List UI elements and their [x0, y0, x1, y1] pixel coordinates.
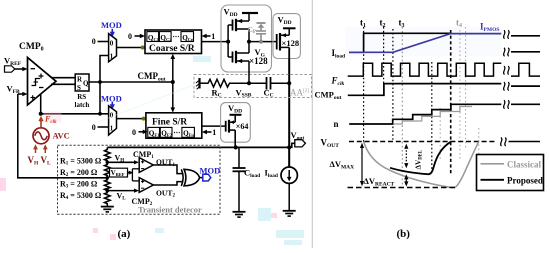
op-amp CMP1 [133, 150, 154, 173]
waveform CMP_out [348, 84, 502, 96]
ground (resistor string) [101, 207, 114, 212]
svg-text:0: 0 [110, 112, 114, 120]
timeline grey dotted lines [440, 27, 479, 188]
wire comparator clock input to AVC node [39, 94, 43, 116]
waveform I_load step (black) [349, 33, 451, 52]
svg-text:×128: ×128 [282, 38, 300, 48]
svg-text:(a): (a) [118, 228, 131, 240]
label V_OUT [321, 138, 340, 149]
label CMP_out [315, 90, 342, 101]
transistor MP power PMOS x128 [277, 33, 290, 59]
label MOD (top mux select) [101, 20, 122, 37]
V_OUT proposed curve (black) [390, 142, 451, 174]
node V_H tap [106, 154, 140, 165]
register Fine S/R [146, 113, 202, 138]
svg-text:1: 1 [212, 128, 216, 137]
svg-text:Proposed: Proposed [507, 175, 543, 185]
timeline step3 dotted [431, 62, 433, 173]
label t4 (grey) [456, 18, 462, 29]
label t3 [399, 18, 405, 29]
svg-text:RS: RS [77, 93, 86, 101]
svg-text:⋯: ⋯ [173, 33, 180, 41]
waveform I_PMOS (blue) [349, 34, 501, 53]
svg-text:R3 = 200 Ω: R3 = 200 Ω [60, 180, 98, 190]
op-amp CMP2 [132, 178, 154, 207]
svg-text:Coarse S/R: Coarse S/R [149, 44, 195, 54]
timeline t3 dotted grey [401, 27, 403, 188]
timeline recovery heavy dashed [450, 30, 452, 175]
port MOD output [200, 165, 221, 181]
node V_L tap [106, 189, 140, 202]
op-amp CMP0 [28, 58, 57, 106]
wire Fine gate line to x64 gate [202, 125, 226, 127]
label R4 value [60, 191, 102, 201]
label AA[2] (grey) [290, 88, 309, 98]
svg-text:CMP0: CMP0 [19, 42, 44, 53]
label V_DD (driver) [224, 7, 238, 19]
label x64 [236, 122, 249, 131]
node 1 input of Fine S/R [202, 128, 217, 137]
power PMOS group box [273, 14, 300, 59]
timeline t1 dotted [363, 27, 365, 142]
label (b) [397, 228, 411, 240]
AVC oscillator [33, 128, 70, 144]
svg-text:Q: Q [83, 80, 89, 88]
ground (C_load) [233, 212, 246, 217]
label x128 (power PMOS) [282, 38, 300, 48]
label (a) [118, 228, 131, 240]
label CMP0 [19, 42, 44, 53]
label Transient detecor [138, 205, 202, 215]
svg-text:Fine S/R: Fine S/R [152, 117, 187, 127]
svg-text:1: 1 [211, 32, 215, 41]
label x128 (driver) [249, 56, 268, 66]
wire mux2 output to Fine S/R [117, 117, 146, 121]
svg-text:0: 0 [92, 37, 96, 46]
transistor MF PMOS x64 [226, 120, 236, 148]
x64 group box [221, 103, 251, 143]
V_OUT nominal dashed line [349, 141, 497, 143]
wire mux1 output to Coarse S/R [117, 46, 146, 50]
svg-text:n: n [334, 119, 339, 129]
AC ground (left of R_C) [196, 78, 206, 89]
svg-text:0: 0 [132, 128, 136, 137]
label I_load [332, 48, 346, 59]
label t2 [380, 18, 386, 29]
svg-text:×64: ×64 [236, 122, 249, 131]
port V_out [289, 130, 305, 148]
label F_clk [331, 76, 345, 87]
wire V_out horizontal rail [107, 145, 289, 149]
arrow dV_DEL [404, 144, 424, 170]
label R2 value [60, 168, 98, 178]
label CMP_out [138, 71, 166, 83]
resistor R1 (string) [105, 147, 111, 162]
svg-text:S: S [77, 84, 81, 92]
gate driver group box [221, 5, 272, 72]
watermark artifacts [155, 56, 304, 245]
label R3 value [60, 180, 98, 190]
label V_FB [7, 84, 21, 96]
register Coarse S/R [145, 30, 202, 54]
mux MUX1 (coarse) [109, 34, 117, 62]
svg-text:MOD: MOD [101, 20, 122, 30]
svg-text:MOD: MOD [101, 94, 122, 104]
label R1 value [60, 157, 102, 167]
svg-text:MOD: MOD [200, 165, 221, 175]
V_OUT minimum dashed line [348, 187, 459, 189]
break and continuation CMP_out [504, 82, 540, 91]
waveform n classical (grey staircase) [394, 107, 472, 125]
label V_G [255, 47, 266, 59]
wire V_REF to comparator [15, 67, 28, 72]
port V_REF (transient detector) [110, 168, 140, 181]
wire V_FB feedback drop to resistor string [18, 94, 108, 178]
node 0 input of Coarse S/R [128, 32, 145, 41]
label C_P [248, 25, 256, 35]
timeline fine-start dotted [392, 29, 394, 142]
transistor M2 NMOS (driver pull-down) [233, 42, 250, 64]
label OUT1 and wire [153, 158, 182, 174]
break and continuation n [504, 100, 540, 109]
capacitor C_load [233, 147, 261, 211]
V_OUT classical curve (grey) [364, 142, 479, 188]
wire CMP_out down arrow into Fine S/R [171, 82, 176, 113]
wire Q branch up to mux1 [100, 56, 109, 83]
resistor R4 (string) [105, 191, 111, 207]
svg-text:latch: latch [75, 101, 90, 109]
node 0 input of mux2 [92, 123, 109, 132]
wire driver gate connector [228, 25, 232, 57]
break and continuation V_OUT [501, 137, 540, 146]
mux MUX2 (fine) [109, 106, 117, 135]
node 1 input of Coarse S/R [202, 32, 216, 41]
label V_DD (x64) [228, 103, 242, 115]
power rail V_DD (driver) [242, 13, 258, 21]
timeline t2 dotted [383, 27, 385, 96]
svg-text:Transient detecor: Transient detecor [138, 205, 202, 215]
label F_clk [44, 112, 62, 125]
svg-text:0: 0 [110, 39, 114, 47]
break and continuation row2 [504, 48, 540, 57]
wire CMP_out up arrow into Coarse S/R [171, 54, 176, 82]
waveform n proposed (black staircase) [349, 104, 501, 124]
labels V_H V_L (AVC inputs) [28, 144, 52, 166]
svg-text:0: 0 [128, 32, 132, 41]
svg-text:⋯: ⋯ [173, 129, 180, 137]
wire AVC net to fine mux [41, 112, 109, 116]
wire V_FB to comparator [18, 92, 28, 97]
power rail V_DD (x64) [230, 115, 242, 122]
wire V_G node to power PMOS gate [247, 40, 277, 44]
break and continuation row1 [504, 30, 540, 39]
svg-text:R2 = 200 Ω: R2 = 200 Ω [60, 168, 98, 178]
XOR gate U2 [181, 169, 199, 186]
capacitor C_C [264, 77, 290, 99]
wire AVC output arrow to F_clk node [38, 116, 43, 128]
port V_REF [4, 56, 22, 73]
label OUT2 and wire [153, 182, 182, 199]
break and continuation F_clk [504, 63, 540, 76]
power rail V_DD (power PMOS) [283, 28, 296, 35]
arrow dV_MAX [330, 143, 365, 186]
label V_DD (power PMOS) [278, 15, 292, 27]
current source I_load [265, 147, 298, 210]
resistor R_C [206, 79, 232, 98]
resistor R2 (string) [105, 162, 111, 178]
node 0 input of Fine S/R [132, 128, 148, 137]
svg-text:×128: ×128 [249, 56, 268, 66]
label MOD (fine mux select) [101, 94, 122, 110]
svg-text:AVC: AVC [53, 131, 70, 141]
wire Coarse gate line to driver gates [202, 40, 231, 44]
svg-text:1: 1 [110, 125, 114, 133]
node V_SSB [232, 61, 267, 99]
waveform F_clk [348, 63, 502, 76]
svg-text:Classical: Classical [507, 159, 542, 169]
transient detector group box [58, 145, 221, 214]
svg-text:CMP1: CMP1 [133, 150, 154, 160]
wire Q branch down to AVC net [99, 82, 101, 114]
resistor R3 (string) [105, 178, 111, 191]
label t1 [360, 18, 366, 29]
node 0 input of mux1 [92, 37, 109, 46]
wire comparator outputs to RS latch [51, 78, 75, 85]
svg-text:0: 0 [92, 123, 96, 132]
wire V_out rail vertical [287, 59, 291, 167]
capacitor C_P (grey) [256, 23, 266, 42]
ground (I_load) [283, 211, 296, 216]
svg-text:1: 1 [110, 53, 114, 61]
RS latch U1 [75, 74, 90, 109]
svg-text:(b): (b) [397, 228, 411, 240]
node V_FB tap [106, 176, 110, 180]
transistor M1 PMOS (driver pull-up) [233, 19, 250, 42]
arrow dV_REACT [364, 174, 409, 187]
compensation network group box [194, 75, 312, 98]
panel divider [311, 0, 313, 248]
panel b background tint [345, 27, 502, 56]
wire Q output / CMP_out [89, 80, 175, 84]
label n [334, 119, 339, 129]
watermark diagonal line [98, 84, 196, 122]
label I_PMOS (blue) [480, 22, 499, 33]
legend box [477, 155, 544, 191]
